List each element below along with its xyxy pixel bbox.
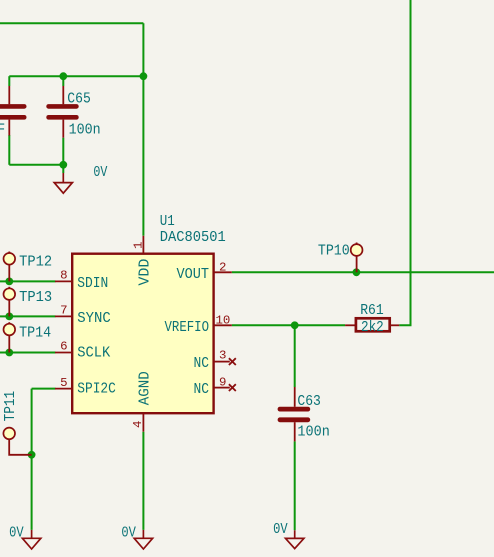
wire VOUT net to right edge — [232, 271, 494, 273]
capacitor C64 (partially off-canvas left) — [0, 86, 27, 136]
junction node VOUT / TP10 — [353, 268, 361, 276]
svg-text:VREFIO: VREFIO — [165, 320, 210, 336]
wire VREFIO to R61 — [232, 324, 345, 326]
svg-text:NC: NC — [194, 382, 210, 398]
pin 7 SYNC stub — [55, 315, 72, 317]
pin 9 NC stub with X — [215, 384, 236, 391]
wire horizontal cap rail y=76 — [9, 75, 143, 77]
wire left cap top stub — [8, 76, 10, 86]
svg-text:VOUT: VOUT — [177, 267, 210, 283]
svg-text:AGND: AGND — [137, 371, 153, 405]
pin 6 SCLK stub — [55, 352, 72, 354]
svg-text:3: 3 — [219, 349, 226, 363]
svg-text:C63: C63 — [297, 394, 321, 410]
wire C65 top stub — [62, 76, 64, 86]
capacitor C65 — [46, 86, 78, 138]
pin 10 VREFIO stub — [215, 324, 232, 326]
svg-text:TP13: TP13 — [19, 290, 52, 306]
wire TP11 net vertical — [31, 389, 33, 530]
svg-text:NC: NC — [194, 356, 210, 372]
wire vertical VDD drop to pin 1 — [142, 23, 144, 236]
svg-text:SYNC: SYNC — [77, 311, 111, 327]
svg-text:7: 7 — [60, 304, 67, 318]
wire left cap bottom stub — [8, 135, 10, 165]
ground under C65 — [54, 173, 72, 193]
svg-text:100n: 100n — [69, 122, 101, 138]
svg-text:2: 2 — [219, 261, 226, 275]
svg-text:SCLK: SCLK — [77, 346, 110, 362]
wire SPI2C row — [32, 388, 56, 390]
svg-text:TP14: TP14 — [19, 325, 51, 341]
junction node cap rail / VDD drop — [140, 72, 148, 80]
ground C63 net — [286, 530, 304, 548]
pin 2 VOUT stub — [215, 271, 232, 273]
wire SCLK row — [0, 352, 56, 354]
wire bottom cap rail y=165 — [9, 164, 63, 166]
junction node SCLK / TP14 — [5, 349, 13, 357]
wire ground stub under C65 — [62, 165, 64, 173]
ground AGND net — [134, 530, 152, 549]
wire SYNC row — [0, 315, 56, 317]
svg-text:U1: U1 — [160, 214, 175, 230]
resistor R61 — [345, 318, 399, 331]
wire C65 bottom stub — [62, 138, 64, 165]
wire C63 bottom to ground — [294, 441, 296, 530]
svg-text:5: 5 — [60, 376, 67, 390]
pin 1 VDD stub — [142, 236, 144, 253]
junction node ground rail / C65 — [59, 161, 67, 169]
op-amp U1 DAC80501 body — [72, 254, 213, 414]
svg-text:6: 6 — [60, 340, 67, 354]
svg-text:TP10: TP10 — [318, 243, 350, 259]
testpoint TP12 — [4, 252, 16, 282]
wire C63 drop from VREFIO — [294, 325, 296, 387]
wire SDIN row — [0, 280, 56, 282]
junction node SDIN / TP12 — [5, 278, 13, 286]
svg-text:0V: 0V — [273, 522, 288, 538]
svg-text:9: 9 — [219, 376, 226, 390]
svg-text:SPI2C: SPI2C — [77, 381, 116, 397]
junction node TP11 net — [28, 451, 36, 459]
svg-text:TP12: TP12 — [19, 255, 52, 271]
svg-text:100n: 100n — [297, 425, 329, 441]
svg-text:1: 1 — [131, 242, 145, 249]
testpoint TP13 — [4, 287, 16, 317]
svg-text:0V: 0V — [9, 525, 24, 541]
junction node SYNC / TP13 — [5, 313, 13, 321]
junction node VREFIO / C63 — [291, 321, 299, 329]
svg-text:10: 10 — [216, 314, 231, 328]
pin 4 AGND stub — [142, 414, 144, 432]
pin 5 SPI2C stub — [55, 388, 72, 390]
junction node cap rail / C65 — [59, 72, 67, 80]
svg-text:2k2: 2k2 — [361, 320, 384, 336]
svg-text:SDIN: SDIN — [77, 276, 108, 292]
svg-text:VDD: VDD — [137, 258, 153, 285]
svg-text:8: 8 — [60, 269, 67, 283]
svg-text:F: F — [0, 122, 5, 138]
capacitor C63 — [278, 387, 311, 441]
pin 3 NC stub with X — [215, 358, 236, 365]
ground TP11 net — [22, 530, 40, 549]
wire top horizontal VDD net — [0, 22, 143, 24]
svg-text:0V: 0V — [121, 525, 136, 541]
svg-text:4: 4 — [131, 421, 145, 428]
wire AGND pin4 to ground — [142, 432, 144, 530]
testpoint TP14 — [4, 322, 16, 352]
svg-text:C65: C65 — [67, 92, 91, 108]
testpoint TP10 — [351, 243, 363, 273]
wire vertical net x=410 from top — [399, 0, 410, 325]
svg-text:DAC80501: DAC80501 — [160, 230, 226, 246]
pin 8 SDIN stub — [55, 280, 72, 282]
svg-text:TP11: TP11 — [3, 391, 19, 422]
svg-text:0V: 0V — [93, 165, 107, 181]
testpoint TP11 — [3, 428, 31, 455]
svg-text:R61: R61 — [360, 303, 384, 319]
